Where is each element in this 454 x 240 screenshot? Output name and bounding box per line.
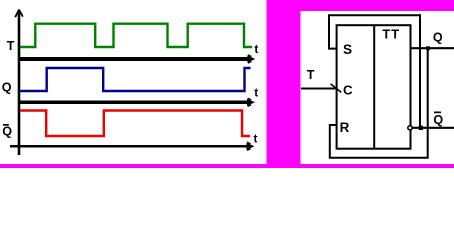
dynamic input slash at C <box>331 84 342 93</box>
vertical axis arrowhead <box>15 10 23 18</box>
axis 1 arrowhead <box>247 55 255 62</box>
waveform Qbar red <box>20 111 250 137</box>
svg-text:R: R <box>340 120 350 135</box>
wire Qbar output <box>413 127 454 129</box>
svg-text:Q: Q <box>433 30 443 44</box>
label Qbar output overbar <box>434 112 441 114</box>
svg-text:t: t <box>254 86 258 100</box>
magenta frame top strip <box>267 0 454 11</box>
svg-text:S: S <box>343 42 352 57</box>
svg-text:Q: Q <box>2 81 12 95</box>
flip-flop box U1 <box>337 25 411 149</box>
magenta bottom strip <box>0 164 454 168</box>
waveform T green <box>20 24 252 47</box>
svg-text:t: t <box>254 132 258 146</box>
wire R input <box>330 124 336 126</box>
vertical axis <box>18 12 21 156</box>
svg-text:t: t <box>254 42 258 56</box>
svg-text:TT: TT <box>382 26 400 41</box>
label Qbar left overbar <box>3 124 9 126</box>
wire feedback bottom horizontal <box>330 157 429 159</box>
time axis 3 <box>10 145 248 148</box>
magenta frame left band <box>267 0 301 168</box>
svg-text:T: T <box>7 39 15 53</box>
time axis 2 <box>18 101 249 105</box>
wire T input to C <box>301 88 336 90</box>
flip-flop divider <box>373 25 375 149</box>
junction node on Qbar <box>419 126 423 130</box>
wire feedback left-top vertical <box>328 15 330 49</box>
wire feedback Q-to-R vertical <box>427 48 429 158</box>
wire S input <box>329 48 336 50</box>
inversion bubble at Qbar <box>408 126 412 130</box>
time axis 1 <box>18 57 249 61</box>
svg-text:Q: Q <box>2 125 12 139</box>
wire feedback top horizontal <box>328 14 420 16</box>
svg-text:Q: Q <box>433 113 443 127</box>
waveform Q blue <box>20 68 251 91</box>
wire feedback Qbar-to-S vertical <box>419 14 421 128</box>
svg-text:C: C <box>343 83 353 98</box>
wire feedback left-bottom vertical <box>329 124 331 159</box>
axis 2 arrowhead <box>247 99 255 106</box>
junction node on Q <box>426 46 430 50</box>
svg-text:T: T <box>307 68 315 82</box>
wire Q output <box>411 47 454 49</box>
axis 3 arrowhead <box>246 143 254 150</box>
